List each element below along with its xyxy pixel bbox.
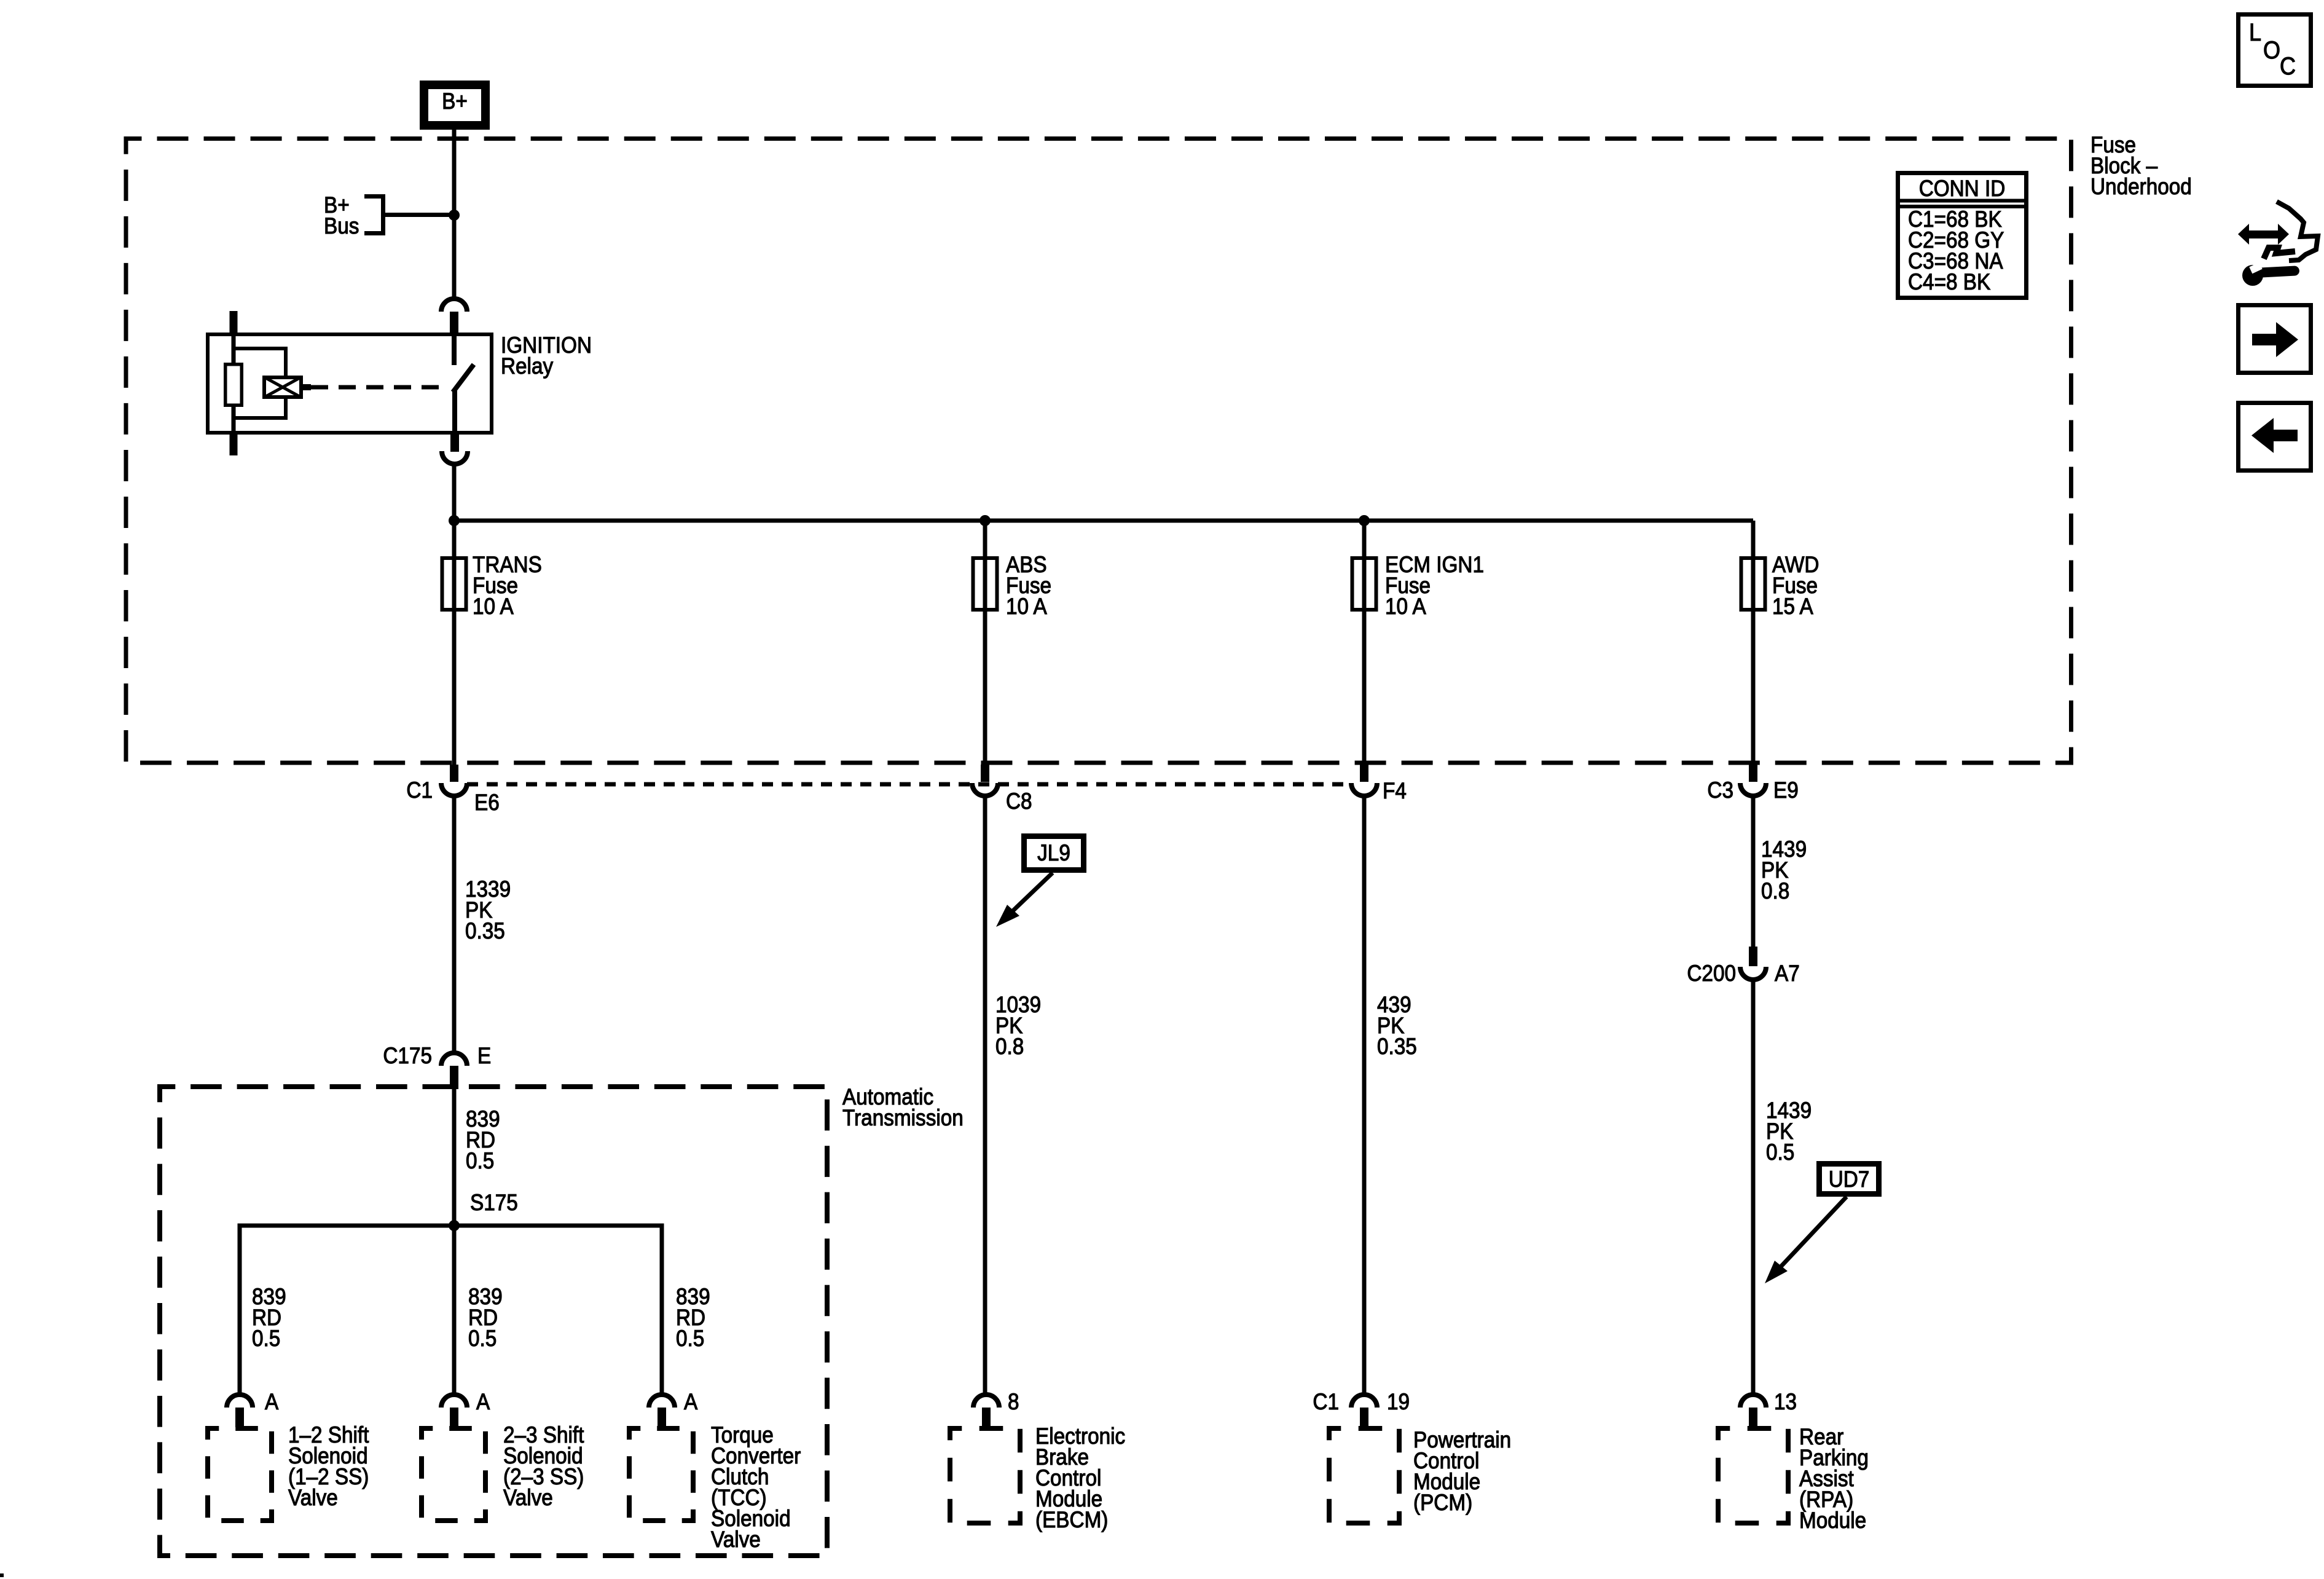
svg-text:C175: C175 <box>383 1043 432 1068</box>
svg-text:Valve: Valve <box>288 1485 338 1510</box>
svg-text:0.35: 0.35 <box>465 918 505 943</box>
svg-text:10 A: 10 A <box>1006 594 1047 619</box>
svg-text:O: O <box>2263 37 2280 64</box>
svg-text:B+: B+ <box>442 89 468 114</box>
svg-text:Module: Module <box>1799 1508 1866 1533</box>
svg-text:A: A <box>684 1389 697 1414</box>
svg-text:E9: E9 <box>1773 778 1799 803</box>
svg-text:0.5: 0.5 <box>466 1148 494 1173</box>
svg-text:C1: C1 <box>406 778 433 803</box>
svg-text:Relay: Relay <box>501 353 554 379</box>
svg-text:JL9: JL9 <box>1037 840 1070 865</box>
svg-text:C200: C200 <box>1687 961 1736 986</box>
svg-text:A: A <box>476 1389 490 1414</box>
svg-text:S175: S175 <box>470 1190 518 1215</box>
svg-text:Valve: Valve <box>711 1527 761 1552</box>
svg-text:15 A: 15 A <box>1772 594 1813 619</box>
svg-text:C4=8 BK: C4=8 BK <box>1908 269 1990 294</box>
svg-text:C: C <box>2280 53 2296 80</box>
svg-text:Transmission: Transmission <box>842 1105 964 1130</box>
svg-text:C3: C3 <box>1707 778 1733 803</box>
svg-text:Valve: Valve <box>503 1485 553 1510</box>
svg-text:Underhood: Underhood <box>2090 174 2192 199</box>
svg-text:0.5: 0.5 <box>252 1326 280 1351</box>
svg-text:0.8: 0.8 <box>995 1034 1024 1059</box>
svg-text:8: 8 <box>1008 1389 1019 1414</box>
svg-text:UD7: UD7 <box>1829 1167 1870 1192</box>
svg-text:Bus: Bus <box>324 213 359 238</box>
svg-text:0.5: 0.5 <box>468 1326 497 1351</box>
svg-text:CONN ID: CONN ID <box>1919 176 2006 201</box>
svg-text:A: A <box>265 1389 278 1414</box>
svg-text:0.8: 0.8 <box>1761 878 1789 904</box>
svg-text:(PCM): (PCM) <box>1413 1490 1472 1515</box>
svg-text:10 A: 10 A <box>473 594 514 619</box>
svg-text:0.5: 0.5 <box>1766 1140 1794 1165</box>
svg-text:C1: C1 <box>1313 1389 1339 1414</box>
svg-text:E6: E6 <box>474 790 500 815</box>
svg-text:0.5: 0.5 <box>676 1326 704 1351</box>
svg-text:13: 13 <box>1774 1389 1797 1414</box>
svg-text:19: 19 <box>1387 1389 1410 1414</box>
svg-text:A7: A7 <box>1775 961 1800 986</box>
svg-text:F4: F4 <box>1383 778 1407 803</box>
svg-text:0.35: 0.35 <box>1377 1034 1417 1059</box>
svg-text:L: L <box>2249 19 2261 46</box>
svg-text:E: E <box>477 1043 491 1068</box>
svg-text:10 A: 10 A <box>1385 594 1426 619</box>
svg-text:(EBCM): (EBCM) <box>1035 1507 1108 1532</box>
svg-text:C8: C8 <box>1006 789 1032 814</box>
